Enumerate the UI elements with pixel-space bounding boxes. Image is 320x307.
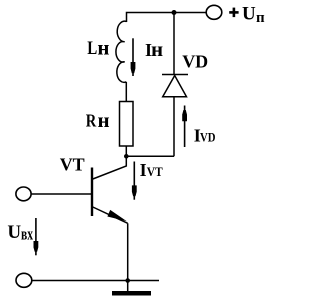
wire resistor to collector node [125,146,127,156]
label IVT [140,160,163,180]
label RH [86,108,110,132]
svg-text:U: U [242,4,256,25]
svg-text:н: н [98,108,110,132]
wire diode anode down to node [173,97,175,157]
wire emitter down to ground [127,223,129,291]
wire top rail from inductor to supply terminal [127,13,207,23]
diode VD [162,75,188,97]
node junction dot on top rail [172,10,177,15]
svg-text:L: L [87,38,97,59]
arrow IVT current [132,162,137,200]
label LH [87,36,109,60]
arrow IH current [131,38,136,76]
svg-text:н: н [151,37,163,61]
svg-text:вх: вх [21,225,33,244]
svg-text:VD: VD [200,130,216,145]
label IVD [194,126,216,146]
svg-text:U: U [7,222,21,243]
svg-text:VD: VD [182,52,208,72]
wire input to base [31,193,92,195]
transistor VT [92,156,128,223]
arrow Uvx input voltage [33,218,38,255]
label Uvx [7,222,33,244]
terminal +Up supply [206,5,222,19]
wire top rail to diode cathode [173,13,175,75]
wire inductor to resistor [125,82,127,102]
node emitter-ground junction dot [125,278,130,283]
arrow IVD current [182,106,187,148]
wire collector node to diode anode [126,155,174,157]
svg-text:VT: VT [60,155,85,175]
label + Up [229,4,265,27]
svg-text:VT: VT [147,164,163,179]
terminal input top [16,187,31,201]
svg-text:R: R [86,111,97,131]
inductor LH [116,21,127,82]
label IH [145,37,163,61]
terminal input bottom [16,273,32,287]
resistor RH [120,102,134,147]
svg-text:I: I [140,160,147,180]
wire bottom from terminal to ground stub [32,280,160,282]
node collector junction dot [124,154,129,159]
svg-text:п: п [256,10,265,26]
ground [112,291,151,296]
svg-text:н: н [97,36,109,60]
